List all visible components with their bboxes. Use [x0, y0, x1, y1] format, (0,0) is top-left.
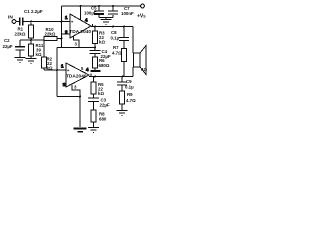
ground main	[74, 129, 87, 132]
wire input to C1	[16, 21, 19, 23]
pin 4 stub amp1	[92, 24, 94, 27]
node junction R1/input	[30, 21, 32, 23]
wire speaker bottom	[132, 67, 134, 77]
resistor R7 zobel	[122, 49, 127, 77]
capacitor C1	[20, 18, 23, 26]
node junction pin3/gnd line	[79, 96, 81, 98]
svg-text:TDA 2040: TDA 2040	[69, 29, 91, 35]
capacitor C9	[117, 77, 127, 92]
svg-text:0.1µ: 0.1µ	[111, 36, 120, 41]
node junction R3/fb	[94, 47, 96, 49]
node IN terminal	[12, 20, 16, 24]
node junction rail C5	[98, 5, 100, 7]
wire node line y40	[20, 39, 44, 41]
op-amp U2 TDA2040	[66, 63, 89, 87]
label R5	[98, 82, 104, 96]
wire C1 to amp1 pin1	[24, 21, 71, 23]
label R10	[45, 27, 56, 37]
label IN	[8, 14, 13, 20]
resistor R5	[91, 77, 96, 98]
node junction out2/C9	[122, 76, 124, 78]
svg-text:100nF: 100nF	[121, 11, 134, 16]
svg-text:4Ω: 4Ω	[141, 67, 147, 72]
capacitor C3	[88, 98, 99, 110]
pin label 1 amp1	[65, 15, 68, 20]
pin plus amp1	[71, 19, 74, 24]
node junction rail pin5	[80, 5, 82, 7]
pin label 1 amp2	[61, 63, 64, 68]
svg-text:4.7Ω: 4.7Ω	[126, 98, 136, 103]
wire supply rail y6	[62, 5, 141, 7]
svg-text:+: +	[67, 68, 70, 73]
label R8	[99, 112, 107, 122]
capacitor C7	[108, 6, 118, 18]
svg-text:IN: IN	[8, 14, 13, 20]
wire amp2 pin3 path	[72, 85, 80, 127]
wire feedback line y47.5	[57, 47, 95, 49]
pin plus amp2	[67, 68, 70, 73]
pin label 3 amp1	[75, 42, 78, 47]
pin label 5 amp2	[81, 66, 84, 71]
svg-text:kΩ: kΩ	[47, 66, 53, 71]
capacitor C8 zobel	[119, 27, 129, 49]
node +Vs terminal	[141, 4, 145, 8]
resistor R9	[120, 91, 125, 110]
label R9	[126, 92, 136, 103]
wire amp1 pin2	[62, 33, 71, 35]
svg-text:C2: C2	[4, 38, 10, 43]
resistor R8	[91, 110, 96, 127]
wire caps bottom join	[99, 18, 113, 20]
node junction out1 x113	[112, 26, 114, 28]
resistor R3	[93, 27, 98, 48]
label R2	[47, 57, 53, 71]
capacitor C4	[90, 48, 101, 58]
node junction out1/zobel	[123, 26, 125, 28]
svg-text:R9: R9	[127, 92, 133, 97]
wire amp1 pin3 path	[74, 36, 80, 47]
label C4	[101, 49, 111, 59]
wire speaker top	[132, 27, 134, 54]
node junction R1 bottom	[30, 39, 32, 41]
label C5	[84, 6, 97, 16]
ground R11	[26, 59, 37, 64]
wire amp2 pin1 input	[44, 69, 66, 71]
svg-text:22µF: 22µF	[3, 44, 13, 49]
label R6	[99, 58, 110, 68]
node junction at x57 y70	[56, 69, 58, 71]
svg-text:680Ω: 680Ω	[99, 63, 110, 68]
wire vertical Vs tap x61.5	[61, 6, 63, 48]
label C2	[3, 38, 13, 49]
node junction Vs-line/input	[61, 21, 63, 23]
label U2 TDA2040	[66, 74, 87, 80]
svg-text:4.7Ω: 4.7Ω	[112, 51, 122, 56]
svg-text:100µF: 100µF	[84, 11, 97, 16]
svg-text:TDA2040: TDA2040	[66, 74, 87, 80]
pin label 4 amp1	[85, 17, 88, 22]
label R3	[99, 31, 105, 45]
svg-text:22µF: 22µF	[100, 103, 110, 108]
pin 4 stub amp2	[90, 73, 92, 76]
pin label 4 amp2	[86, 67, 89, 72]
label C1	[24, 9, 43, 14]
resistor R11 39k	[29, 40, 34, 58]
capacitor C5	[94, 6, 104, 18]
wire amp1 pin5 supply stub	[80, 6, 82, 20]
capacitor C2	[15, 40, 25, 57]
ground C2	[15, 58, 26, 63]
ground R9 chain	[117, 111, 128, 116]
resistor R1	[29, 23, 34, 40]
pin label 2 amp2	[63, 82, 66, 87]
label C7	[121, 6, 134, 16]
wire long vertical x57	[56, 48, 58, 97]
svg-text:0.1µ: 0.1µ	[125, 85, 134, 90]
op-amp U1 TDA2040	[70, 14, 91, 38]
wire output1 y26.5	[91, 26, 133, 28]
speaker LS	[134, 46, 147, 75]
node junction rail C7	[112, 5, 114, 7]
resistor R10 horizontal feedback	[44, 37, 62, 41]
label speaker 4ohm	[141, 67, 147, 72]
node junction fb resistor	[61, 38, 63, 40]
wire output2 y76.5	[89, 76, 133, 78]
svg-text:R7: R7	[113, 45, 119, 50]
svg-text:kΩ: kΩ	[99, 40, 105, 45]
resistor R2 vertical	[42, 40, 47, 70]
resistor R6	[91, 57, 101, 71]
svg-text:kΩ: kΩ	[98, 91, 104, 96]
svg-text:C9: C9	[126, 79, 132, 84]
svg-text:kΩ: kΩ	[36, 52, 42, 57]
wire amp2 pin2 stub	[62, 83, 66, 85]
svg-text:22kΩ: 22kΩ	[15, 32, 26, 37]
label C8	[111, 30, 120, 41]
wire ground line y96.5	[57, 96, 80, 98]
svg-text:22kΩ: 22kΩ	[45, 32, 56, 37]
pin label 2 amp1	[65, 30, 68, 35]
pin label 3 amp2	[74, 85, 77, 90]
svg-text:680: 680	[99, 117, 107, 122]
svg-text:C1 2.2µF: C1 2.2µF	[24, 9, 43, 14]
label R11	[36, 43, 44, 57]
label +Vs	[137, 14, 146, 20]
label C9	[125, 79, 134, 90]
svg-text:C8: C8	[111, 30, 117, 35]
label C3	[100, 98, 110, 108]
ground supply caps	[101, 20, 112, 25]
node junction out1/R3	[94, 26, 96, 28]
label R1	[15, 27, 26, 37]
label R7	[112, 45, 122, 56]
node junction out2/R6R5	[94, 76, 96, 78]
label U1 TDA2040	[69, 29, 91, 35]
svg-text:+: +	[71, 19, 74, 24]
ground R8 chain	[88, 128, 99, 133]
